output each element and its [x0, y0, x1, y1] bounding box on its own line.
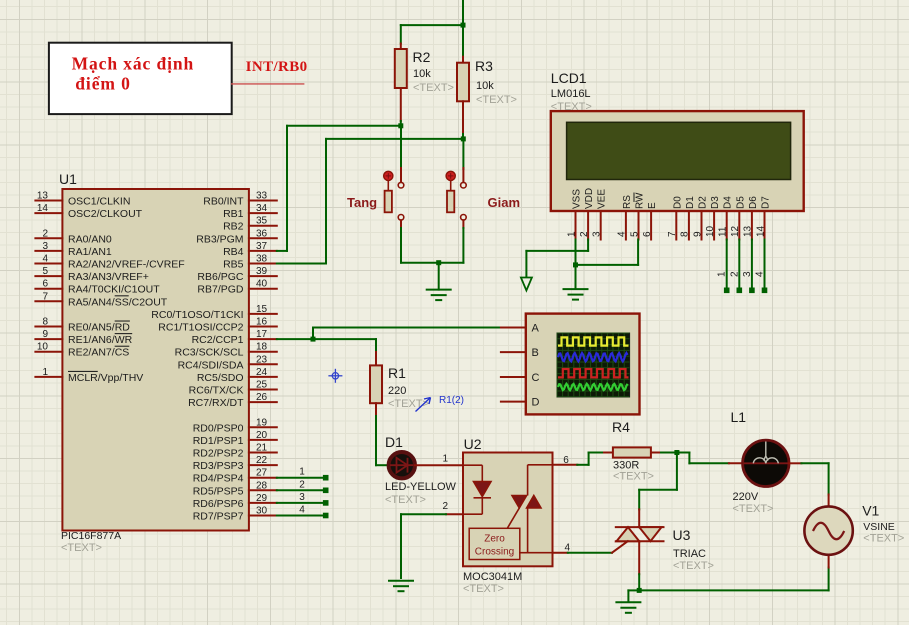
svg-text:12: 12	[730, 225, 741, 237]
svg-text:22: 22	[256, 455, 268, 466]
svg-text:RB7/PGD: RB7/PGD	[197, 284, 244, 296]
svg-text:Crossing: Crossing	[475, 547, 514, 558]
wire R3 bottom	[462, 134, 464, 139]
svg-text:13: 13	[37, 191, 49, 202]
wire R1 to D1	[375, 416, 377, 465]
svg-text:8: 8	[42, 317, 48, 328]
svg-text:RE1/AN6/WR: RE1/AN6/WR	[68, 334, 133, 346]
U1 pin 15 stub	[249, 313, 277, 315]
svg-text:VSINE: VSINE	[863, 521, 895, 533]
svg-text:RD5/PSP5: RD5/PSP5	[193, 485, 244, 497]
svg-text:RD2/PSP2: RD2/PSP2	[193, 448, 244, 460]
wire R3 to Giam	[462, 139, 464, 169]
svg-text:1: 1	[717, 271, 728, 277]
title box	[49, 43, 232, 114]
LCD pins	[575, 211, 577, 240]
wire U3 to ground node	[638, 574, 640, 590]
svg-text:220V: 220V	[733, 491, 759, 503]
svg-text:MOC3041M: MOC3041M	[463, 571, 522, 583]
svg-text:V1: V1	[862, 503, 879, 519]
svg-text:RA4/T0CKI/C1OUT: RA4/T0CKI/C1OUT	[68, 284, 160, 296]
scope waveform B blue	[558, 353, 628, 361]
U1 pin 7 stub	[35, 300, 62, 302]
U1 pin 18 stub	[249, 351, 277, 353]
wire RB4 net	[287, 125, 401, 127]
svg-text:RD4/PSP4: RD4/PSP4	[193, 473, 244, 485]
U1 pin 34 stub	[249, 212, 277, 214]
wire LCD VDD to power arrow	[587, 240, 589, 251]
svg-text:RB1: RB1	[223, 208, 244, 220]
junction RC2	[311, 337, 316, 342]
svg-text:Mạch xác định: Mạch xác định	[72, 54, 195, 74]
U1 pin 27 stub	[249, 477, 277, 479]
wire R4 to node	[661, 452, 677, 454]
wire red underline	[232, 83, 304, 85]
svg-text:27: 27	[256, 468, 268, 479]
U1 pin 30 stub	[249, 515, 277, 517]
svg-text:RA2/AN2/VREF-/CVREF: RA2/AN2/VREF-/CVREF	[68, 259, 185, 271]
U1 pin 24 stub	[249, 376, 277, 378]
wire node to U3	[676, 453, 678, 490]
svg-text:3: 3	[42, 241, 48, 252]
svg-text:<TEXT>: <TEXT>	[863, 533, 904, 545]
U1 pin 40 stub	[249, 288, 277, 290]
U1 pin 23 stub	[249, 363, 277, 365]
svg-text:R2: R2	[413, 49, 431, 65]
svg-text:1: 1	[566, 231, 577, 237]
svg-text:RD6/PSP6: RD6/PSP6	[193, 498, 244, 510]
svg-text:1: 1	[42, 367, 48, 378]
IC U1 PIC16F877A body	[62, 189, 249, 531]
svg-text:40: 40	[256, 279, 268, 290]
svg-text:3: 3	[299, 492, 305, 503]
svg-text:RC7/RX/DT: RC7/RX/DT	[188, 397, 244, 409]
svg-text:D1: D1	[685, 196, 696, 209]
lamp L1	[743, 440, 789, 486]
junction R3/RB5	[461, 136, 466, 141]
U1 RD4-RD7 net wires	[277, 477, 326, 479]
svg-text:9: 9	[42, 329, 48, 340]
svg-text:4: 4	[755, 271, 766, 277]
svg-text:Giam: Giam	[488, 195, 521, 210]
svg-text:7: 7	[667, 231, 678, 237]
svg-text:RC5/SDO: RC5/SDO	[197, 372, 244, 384]
svg-text:6: 6	[563, 455, 569, 466]
button Tang	[400, 168, 402, 182]
U1 pin 29 stub	[249, 502, 277, 504]
U1 pin 16 stub	[249, 326, 277, 328]
svg-text:4: 4	[42, 254, 48, 265]
svg-text:D6: D6	[748, 196, 759, 209]
svg-text:<TEXT>: <TEXT>	[61, 542, 102, 554]
junction VSS/RW	[573, 262, 578, 267]
LCD1 LM016L body	[551, 111, 804, 211]
oscilloscope body	[526, 314, 640, 415]
svg-text:17: 17	[256, 329, 268, 340]
U1 pin 20 stub	[249, 439, 277, 441]
U1 pin 17 stub	[249, 338, 277, 340]
svg-text:Zero: Zero	[484, 534, 505, 545]
svg-text:19: 19	[256, 417, 268, 428]
resistor R3	[462, 25, 464, 57]
U1 pin 19 stub	[249, 426, 277, 428]
junction buttons gnd	[436, 260, 441, 265]
source V1 VSINE	[804, 506, 852, 554]
svg-text:RA5/AN4/SS/C2OUT: RA5/AN4/SS/C2OUT	[68, 296, 168, 308]
ground U2	[389, 580, 413, 582]
svg-text:10: 10	[37, 342, 49, 353]
svg-text:28: 28	[256, 480, 268, 491]
U1 pin 4 stub	[35, 263, 62, 265]
svg-text:RB0/INT: RB0/INT	[203, 196, 244, 208]
svg-text:VEE: VEE	[597, 189, 608, 209]
svg-text:RC0/T1OSO/T1CKI: RC0/T1OSO/T1CKI	[151, 309, 243, 321]
LED D1	[389, 452, 415, 478]
svg-text:U3: U3	[673, 527, 691, 543]
svg-text:5: 5	[629, 231, 640, 237]
svg-text:OSC2/CLKOUT: OSC2/CLKOUT	[68, 208, 143, 220]
svg-text:RW: RW	[635, 192, 646, 209]
svg-text:RD7/PSP7: RD7/PSP7	[193, 511, 244, 523]
junction U3 gnd	[637, 588, 642, 593]
svg-text:U2: U2	[464, 436, 482, 452]
svg-text:24: 24	[256, 367, 268, 378]
resistor R4	[604, 452, 613, 454]
junction	[461, 23, 466, 28]
svg-text:<TEXT>: <TEXT>	[476, 94, 517, 106]
svg-text:D5: D5	[735, 196, 746, 209]
svg-text:10k: 10k	[413, 68, 431, 80]
U1 pin 38 stub	[249, 263, 277, 265]
svg-text:Tang: Tang	[347, 195, 377, 210]
wire buttons to ground	[400, 228, 402, 263]
svg-text:2: 2	[442, 501, 448, 512]
svg-text:RB6/PGC: RB6/PGC	[197, 271, 244, 283]
scope inputs	[501, 327, 526, 329]
svg-text:4: 4	[299, 505, 305, 516]
ground	[427, 289, 451, 291]
wire node to L1	[677, 452, 690, 454]
svg-text:D2: D2	[698, 196, 709, 209]
svg-text:35: 35	[256, 216, 268, 227]
svg-text:RA1/AN1: RA1/AN1	[68, 246, 112, 258]
wire LCD VSS to ground	[575, 240, 577, 288]
svg-text:36: 36	[256, 228, 268, 239]
U1 pin 8 stub	[35, 326, 62, 328]
svg-text:RS: RS	[622, 195, 633, 209]
svg-text:37: 37	[256, 241, 268, 252]
wire L1 to V1	[789, 462, 801, 464]
svg-text:RC6/TX/CK: RC6/TX/CK	[189, 385, 244, 397]
scope screen	[557, 333, 630, 397]
U1 pin 14 stub	[35, 212, 62, 214]
origin marker blue	[328, 369, 342, 383]
resistor R2	[400, 44, 402, 50]
wire R2 to Tang	[400, 126, 402, 169]
wire VCC vertical	[462, 0, 464, 25]
U1 pin 36 stub	[249, 237, 277, 239]
svg-text:R1: R1	[388, 365, 406, 381]
wire U2 pin4 to U3 gate	[553, 552, 568, 554]
LCD screen	[567, 122, 791, 179]
U1 pin 25 stub	[249, 389, 277, 391]
svg-text:26: 26	[256, 392, 268, 403]
svg-text:OSC1/CLKIN: OSC1/CLKIN	[68, 196, 130, 208]
U1 pin 10 stub	[35, 351, 62, 353]
svg-text:RC3/SCK/SCL: RC3/SCK/SCL	[175, 347, 244, 359]
wire to R2	[401, 24, 463, 26]
svg-text:TRIAC: TRIAC	[673, 548, 706, 560]
svg-text:34: 34	[256, 203, 268, 214]
svg-text:14: 14	[755, 225, 766, 237]
U2 internal LED	[463, 465, 491, 514]
svg-text:RB5: RB5	[223, 259, 244, 271]
svg-text:9: 9	[692, 231, 703, 237]
svg-text:33: 33	[256, 191, 268, 202]
LCD data terminals	[726, 240, 728, 289]
wire RC2/CCP1 net	[277, 338, 313, 340]
svg-text:38: 38	[256, 254, 268, 265]
svg-text:220: 220	[388, 385, 406, 397]
U2 internal triac	[507, 465, 552, 553]
svg-text:RA3/AN3/VREF+: RA3/AN3/VREF+	[68, 271, 149, 283]
svg-text:D1: D1	[385, 434, 403, 450]
svg-text:RB4: RB4	[223, 246, 244, 258]
svg-text:<TEXT>: <TEXT>	[613, 471, 654, 483]
svg-text:10k: 10k	[476, 80, 494, 92]
U1 pin 5 stub	[35, 275, 62, 277]
svg-text:PIC16F877A: PIC16F877A	[61, 530, 121, 542]
svg-text:RB3/PGM: RB3/PGM	[196, 233, 243, 245]
svg-text:<TEXT>: <TEXT>	[733, 503, 774, 515]
svg-text:3: 3	[592, 231, 603, 237]
U1 pin 1 stub	[35, 376, 62, 378]
wire D1 to U2 pin1	[415, 464, 463, 466]
svg-text:30: 30	[256, 506, 268, 517]
svg-text:2: 2	[579, 231, 590, 237]
scope waveform D green	[558, 384, 628, 390]
svg-text:RA0/AN0: RA0/AN0	[68, 233, 112, 245]
svg-text:LM016L: LM016L	[551, 88, 591, 100]
svg-text:RE0/AN5/RD: RE0/AN5/RD	[68, 322, 130, 334]
svg-text:7: 7	[42, 291, 48, 302]
resistor R1	[375, 352, 377, 365]
optocoupler U2 MOC3041M	[463, 453, 553, 567]
wire LCD RW	[637, 240, 639, 265]
svg-text:18: 18	[256, 342, 268, 353]
svg-text:23: 23	[256, 354, 268, 365]
svg-text:C: C	[532, 372, 540, 384]
svg-text:R1(2): R1(2)	[439, 395, 464, 406]
button Giam	[462, 168, 464, 182]
U1 pin 37 stub	[249, 250, 277, 252]
svg-text:A: A	[532, 323, 540, 335]
svg-text:RC4/SDI/SDA: RC4/SDI/SDA	[178, 359, 244, 371]
wire U2 pin2 to ground	[446, 513, 463, 515]
svg-text:6: 6	[642, 231, 653, 237]
svg-text:<TEXT>: <TEXT>	[385, 494, 426, 506]
svg-text:INT/RB0: INT/RB0	[246, 59, 308, 75]
svg-text:20: 20	[256, 430, 268, 441]
U1 pin 39 stub	[249, 275, 277, 277]
svg-text:<TEXT>: <TEXT>	[413, 82, 454, 94]
svg-text:29: 29	[256, 493, 268, 504]
svg-text:6: 6	[42, 279, 48, 290]
wire to R1	[313, 338, 376, 340]
U1 pin 33 stub	[249, 200, 277, 202]
U1 pin 6 stub	[35, 288, 62, 290]
U1 pin 13 stub	[35, 200, 62, 202]
svg-text:RD0/PSP0: RD0/PSP0	[193, 422, 244, 434]
svg-text:RE2/AN7/CS: RE2/AN7/CS	[68, 347, 129, 359]
svg-text:D3: D3	[710, 196, 721, 209]
svg-text:VDD: VDD	[584, 188, 595, 209]
svg-text:D4: D4	[723, 196, 734, 209]
svg-text:<TEXT>: <TEXT>	[673, 560, 714, 572]
svg-text:2: 2	[42, 228, 48, 239]
svg-text:D7: D7	[761, 196, 772, 209]
scope waveform A yellow	[558, 337, 629, 345]
svg-text:RC2/CCP1: RC2/CCP1	[192, 334, 244, 346]
svg-text:điểm 0: điểm 0	[75, 73, 130, 93]
wire RB5 net	[326, 138, 463, 140]
svg-text:39: 39	[256, 266, 268, 277]
svg-text:R4: R4	[612, 419, 630, 435]
svg-text:RC1/T1OSI/CCP2: RC1/T1OSI/CCP2	[158, 322, 243, 334]
svg-text:<TEXT>: <TEXT>	[463, 583, 504, 595]
svg-text:8: 8	[680, 231, 691, 237]
svg-text:1: 1	[442, 454, 448, 465]
svg-text:14: 14	[37, 203, 49, 214]
U1 pin 35 stub	[249, 225, 277, 227]
svg-text:13: 13	[743, 225, 754, 237]
svg-text:15: 15	[256, 304, 268, 315]
svg-text:L1: L1	[731, 409, 747, 425]
svg-text:E: E	[647, 202, 658, 209]
U1 pin 28 stub	[249, 489, 277, 491]
svg-text:2: 2	[729, 271, 740, 277]
svg-text:VSS: VSS	[572, 189, 583, 209]
svg-text:10: 10	[705, 225, 716, 237]
svg-text:16: 16	[256, 317, 268, 328]
triac U3	[638, 509, 640, 527]
U1 pin 21 stub	[249, 452, 277, 454]
svg-text:1: 1	[299, 467, 305, 478]
svg-text:D: D	[532, 397, 540, 409]
svg-text:B: B	[532, 347, 539, 359]
svg-text:RD1/PSP1: RD1/PSP1	[193, 435, 244, 447]
ground U3	[616, 601, 640, 603]
U1 pin 22 stub	[249, 464, 277, 466]
power arrow	[521, 278, 532, 291]
svg-text:4: 4	[617, 231, 628, 237]
U1 pin 2 stub	[35, 237, 62, 239]
scope waveform C red	[558, 369, 629, 377]
svg-text:21: 21	[256, 443, 268, 454]
svg-text:LCD1: LCD1	[551, 70, 587, 86]
svg-text:MCLR/Vpp/THV: MCLR/Vpp/THV	[68, 372, 143, 384]
svg-text:2: 2	[299, 479, 305, 490]
junction R4/L1/U3	[674, 450, 679, 455]
svg-text:RD3/PSP3: RD3/PSP3	[193, 460, 244, 472]
ground LCD	[564, 288, 588, 290]
wire U2 pin6 to R4	[553, 464, 578, 466]
svg-text:3: 3	[742, 271, 753, 277]
U1 pin 26 stub	[249, 401, 277, 403]
svg-text:R3: R3	[475, 58, 493, 74]
wire R2 bottom	[400, 121, 402, 126]
svg-text:LED-YELLOW: LED-YELLOW	[385, 481, 457, 493]
wire to V1 bottom	[639, 589, 828, 591]
svg-text:25: 25	[256, 380, 268, 391]
U1 pin 3 stub	[35, 250, 62, 252]
svg-text:RB2: RB2	[223, 221, 244, 233]
U2 zero crossing box	[469, 528, 520, 559]
probe label R1(2)	[416, 398, 431, 412]
svg-text:<TEXT>: <TEXT>	[551, 101, 592, 113]
svg-text:D0: D0	[672, 196, 683, 209]
junction R2/RB4	[398, 123, 403, 128]
svg-text:5: 5	[42, 266, 48, 277]
svg-text:U1: U1	[59, 171, 77, 187]
svg-text:11: 11	[718, 226, 729, 237]
U1 pin 9 stub	[35, 338, 62, 340]
